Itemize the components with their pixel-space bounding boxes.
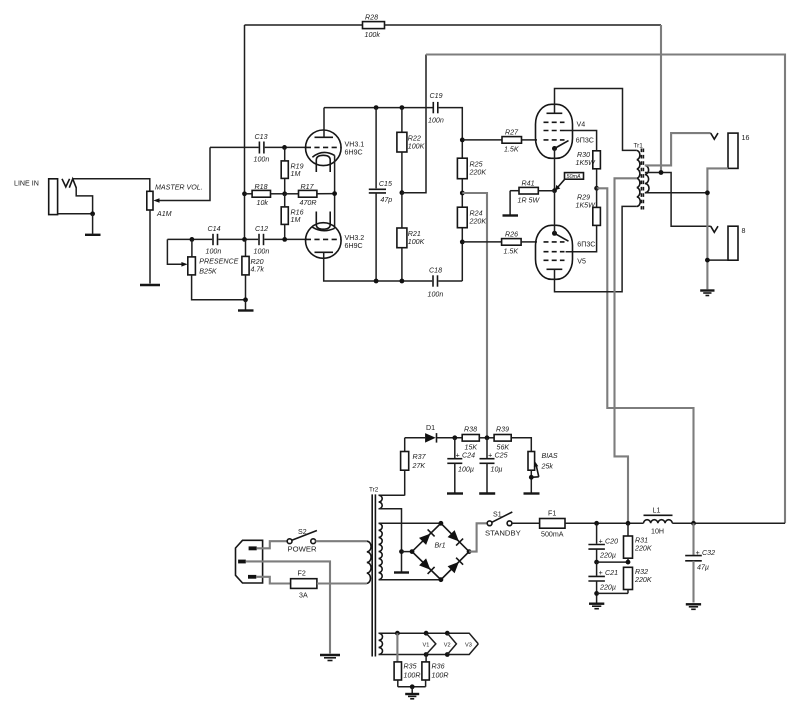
V4 cathode dot [552,146,557,151]
resistor R24 [457,207,486,228]
wire HT row with C19 [324,107,433,109]
node bridge right [467,549,472,554]
wire ground stub [92,214,94,234]
capacitor C21 [588,562,618,602]
svg-text:V5: V5 [577,258,586,266]
jack 16 tip contact [711,133,718,139]
capacitor C15 [369,108,392,281]
svg-text:6H9C: 6H9C [345,149,363,157]
ground HV winding [394,571,409,573]
heater arrow V1 [423,633,436,654]
svg-text:C25: C25 [495,452,508,460]
svg-text:15K: 15K [465,444,478,452]
wire jack 16 sleeve [707,168,728,289]
svg-text:220K: 220K [634,545,652,553]
resistor R21 [397,193,425,281]
wire secondary top lead to 16 ohm jack [645,133,711,165]
resistor R38 [462,426,479,452]
diode D1 [425,424,436,443]
Tr1 secondary winding [645,165,649,192]
PREAMP-SECTION [245,14,662,299]
resistor R25 [457,158,486,179]
capacitor C32 [685,523,715,602]
svg-text:R37: R37 [413,453,427,461]
capacitor C13 [254,133,270,164]
svg-text:6П3С: 6П3С [576,137,594,145]
svg-text:F2: F2 [298,570,306,578]
wire secondary bottom lead [645,192,708,194]
svg-text:1M: 1M [291,170,301,178]
svg-text:1M: 1M [291,216,301,224]
jack switch contact [69,179,76,188]
wire jack 8 sleeve [707,259,728,261]
ground C24 [447,492,463,494]
resistor R41 [510,180,554,205]
resistor R39 [494,426,511,452]
node C24 junction [452,435,457,440]
OUTPUT-SECTION [700,133,749,295]
svg-text:R18: R18 [255,183,268,191]
resistor R27 [462,129,537,154]
wire jack contact to ground node [76,187,92,214]
VH3.2 grid dashes [306,238,341,240]
svg-text:220K: 220K [469,169,487,177]
ground heater [405,694,419,699]
V5 grid3 dashes [544,259,565,261]
wire splitter mid to HT feed [402,55,426,193]
wire to ground [245,300,247,310]
bridge Br1 diamond [412,523,469,579]
wiper arrow of PRESENCE [181,262,187,267]
VH3.1 cathode arc [312,152,334,157]
Tr2 HV winding [379,523,383,579]
svg-text:PRESENCE: PRESENCE [199,258,238,266]
node bias wiper junction [529,475,534,480]
svg-text:MASTER VOL.: MASTER VOL. [155,184,203,192]
svg-text:3A: 3A [299,592,308,600]
svg-text:100n: 100n [428,117,444,125]
svg-text:C13: C13 [255,133,268,141]
svg-text:C20: C20 [605,538,618,546]
node R31 R32 junction [626,560,631,565]
svg-text:R27: R27 [505,129,519,137]
svg-text:R22: R22 [408,135,421,143]
svg-text:+: + [599,538,603,546]
svg-text:27K: 27K [412,462,426,470]
wire VH3.1 anode to HT row [323,108,325,138]
resistor R29 [576,188,601,225]
wire jack to volume pot [73,179,150,192]
Tr2 heater winding [379,633,383,654]
VH3.1 heater [316,155,330,172]
svg-text:50mA: 50mA [567,174,581,180]
wire S2 to Tr2 primary top [316,540,367,542]
resistor R16 [281,194,303,240]
node R16 bottom junction [282,237,287,242]
wire wiper to C13 row [156,147,210,200]
V5 anode plate [547,268,563,270]
node C15 bottom junction [374,279,379,284]
svg-text:C18: C18 [429,267,442,275]
wire presence pot top [191,239,193,257]
node R27 tap junction [460,138,465,143]
svg-text:100K: 100K [408,143,425,151]
switch S1 [485,510,521,537]
svg-text:V2: V2 [444,642,451,648]
node HV return junction [399,549,404,554]
wire VH3.2 anode down to C18 row [324,252,376,281]
wire jack sleeve to ground node [58,213,93,215]
wire screen supply to PSU [597,188,694,523]
wire HT rail 2 [426,55,785,524]
resistor R36 [422,655,449,687]
wire presence row left [167,238,212,240]
node feedback tap junction [659,170,664,175]
capacitor C20 [588,523,618,562]
svg-text:Tr1: Tr1 [634,143,644,150]
tube VH3.1 envelope [306,130,342,166]
PSU-SECTION [236,487,786,661]
svg-text:R24: R24 [470,210,483,218]
svg-text:6H9C: 6H9C [345,242,363,250]
svg-text:R32: R32 [635,568,648,576]
HEATER-SECTION [379,631,479,699]
resistor R20 [242,239,264,299]
callout 50mA box [555,173,583,191]
wire V4 screen to R30 [565,131,597,151]
svg-text:+: + [696,549,700,557]
VH3.2 cathode arc [312,227,334,231]
svg-text:220K: 220K [634,576,652,584]
node R18 feedback junction [242,191,247,196]
svg-text:V1: V1 [423,642,430,648]
wire bias feed [462,193,487,438]
node R18 R17 R19 R16 junction [282,191,287,196]
svg-text:S1: S1 [493,510,502,518]
svg-text:1K5W: 1K5W [576,159,597,167]
svg-text:R38: R38 [464,426,477,434]
wire B+ rail [565,522,644,524]
wire R37 to HV winding top [379,494,405,496]
svg-text:1.5K: 1.5K [504,146,519,154]
svg-text:10µ: 10µ [491,466,503,474]
svg-text:BIAS: BIAS [542,452,558,460]
svg-text:25k: 25k [541,463,554,471]
ground R41 [503,214,519,216]
node C13 R19 junction [282,145,287,150]
svg-text:500mA: 500mA [541,531,564,539]
node C15 top junction [374,105,379,110]
svg-text:100R: 100R [404,672,421,680]
wire live pin to S2 [257,541,287,548]
ground A1M [140,284,160,286]
V4 anode plate [547,112,563,114]
svg-text:VH3.2: VH3.2 [345,234,365,242]
bridge diode top-left [419,529,435,545]
node C20 junction [594,521,599,526]
ground C21 [589,604,604,609]
svg-text:C24: C24 [462,452,475,460]
svg-text:V4: V4 [577,121,586,129]
wire V4 cathode down [554,149,556,191]
resistor R32 [624,567,652,593]
wire bias pot bottom [530,470,532,492]
svg-text:4.7k: 4.7k [251,266,265,274]
svg-text:C12: C12 [255,225,268,233]
svg-text:V3: V3 [465,642,472,648]
switch S2 [287,528,317,554]
Tr2 bias winding [379,495,383,509]
V5 grid1 dashes [544,241,565,243]
svg-text:R26: R26 [505,231,518,239]
capacitor C25 [480,438,508,493]
wire L1 to B+ right [672,522,785,524]
svg-text:+: + [599,569,603,577]
jack 8 tip contact [711,226,718,232]
svg-text:R28: R28 [365,14,378,22]
wire C18 row [375,280,432,282]
resistor R37 [401,438,427,496]
resistor R17 [285,183,335,207]
wire C18 to splitter column [438,280,462,282]
VH3.1 grid dashes [306,146,341,148]
Tr1 primary winding [637,150,640,206]
ground C25 [479,492,495,494]
svg-text:R39: R39 [496,426,509,434]
wire S1 to F1 [512,522,540,524]
wire C14 to C12 [218,238,258,240]
svg-text:POWER: POWER [288,545,317,554]
wire R38 to R39 [479,437,494,439]
node R22 top junction [400,105,405,110]
node heater ground junction [410,684,415,689]
svg-text:100n: 100n [428,291,444,299]
node C32 junction [691,521,696,526]
wire heater rail bottom [379,644,479,655]
resistor R18 [245,183,285,207]
svg-text:1R 5W: 1R 5W [518,197,541,205]
Tr2 primary winding [367,541,371,583]
VH3.2 heater [316,212,330,230]
SPLITTER-SECTION [426,55,785,524]
connector jack 8 body [728,226,738,260]
capacitor C18 [428,267,444,299]
potentiometer BIAS 25k body [528,452,535,471]
VH3.1 anode plate [315,136,334,138]
wire R28 to output tap [385,24,662,26]
svg-text:220K: 220K [469,218,487,226]
node R26 tap junction [460,240,465,245]
wire R35 R36 to ground [398,686,426,688]
node R20 presence ground junction [243,297,248,302]
wire V5 cathode up [554,191,556,234]
Tr1 core [641,149,643,210]
svg-text:Tr2: Tr2 [369,487,379,494]
svg-text:100K: 100K [408,238,425,246]
wire R32 bottom to C21 [597,592,628,594]
svg-text:C21: C21 [605,569,618,577]
bridge diode bottom-right [448,558,464,574]
ground C32 [686,604,701,609]
jack tip contact V [62,179,70,187]
capacitor C24 [447,438,475,493]
svg-text:S2: S2 [298,528,307,536]
node R35 tap [395,631,400,636]
wire bias winding bottom to bridge left [379,509,402,572]
wire presence bottom [192,275,246,300]
svg-text:56K: 56K [497,444,510,452]
wire VH3.1 cathode to VH3.2 cathode [334,155,336,228]
svg-text:1.5K: 1.5K [504,248,519,256]
svg-text:100n: 100n [254,156,270,164]
wire V4 anode to Tr1 primary top [555,89,637,151]
wire HV top to bridge top [379,522,441,524]
capacitor C14 [206,225,222,256]
potentiometer PRESENCE B25K body [188,257,196,275]
resistor R28 [363,14,385,40]
ground jack [85,234,101,236]
svg-text:100µ: 100µ [458,466,474,474]
BIAS-SECTION [379,424,558,496]
wire D1 to R38 [437,437,463,439]
node bridge bottom [439,577,444,582]
Tr2 core [372,494,375,656]
svg-text:16: 16 [742,134,750,142]
resistor R22 [397,108,425,193]
resistor R31 [624,523,652,562]
V4 screen dashes [544,130,565,132]
svg-text:1K5W: 1K5W [576,202,597,210]
svg-text:100n: 100n [254,248,270,256]
wire R41 to ground [509,191,511,215]
node R30 R29 junction [594,186,599,191]
svg-text:100n: 100n [206,248,222,256]
fuse F1 [540,510,565,539]
svg-text:10k: 10k [257,199,269,207]
node jack 8 ground junction [705,258,710,263]
inductor L1 [644,507,673,536]
wire to bridge left corner [402,551,413,553]
wire bridge plus to S1 [469,523,487,551]
svg-text:470R: 470R [300,199,317,207]
ground BIAS [524,492,540,494]
heater arrow V2 [444,633,457,654]
wire HV bottom to bridge bottom [379,579,441,581]
capacitor C19 [428,92,444,125]
svg-text:R29: R29 [577,194,590,202]
V5 beam plate tie [555,233,569,241]
svg-text:Br1: Br1 [435,542,446,550]
svg-text:8: 8 [742,227,746,235]
node C21 ground junction [594,591,599,596]
svg-text:VH3.1: VH3.1 [345,141,365,149]
wire R28 feedback rail top [245,24,363,26]
svg-text:100R: 100R [432,672,449,680]
wire C13 row [210,146,259,148]
node V2 bottom tap [445,652,450,657]
POWER-TUBES-SECTION [503,89,711,524]
V4 grid1 dashes [544,139,565,141]
wire C13 to VH3.1 grid [265,146,307,148]
bridge diode bottom-left [419,558,435,574]
wire V5 anode to Tr1 primary bottom [555,206,637,291]
wire neutral pin to F2 [256,577,290,584]
bridge diode top-right [448,530,464,546]
svg-text:LINE IN: LINE IN [14,180,39,188]
node presence top junction [190,237,195,242]
wire heater rail top [379,633,479,644]
resistor R19 [281,147,303,193]
capacitor C12 [254,225,270,256]
node bias filter junction [485,435,490,440]
svg-text:R25: R25 [470,161,483,169]
resistor R30 [576,151,601,189]
svg-text:F1: F1 [548,510,556,518]
svg-text:10H: 10H [651,528,664,536]
node R21 bottom junction [400,279,405,284]
svg-text:L1: L1 [653,507,661,515]
tube V4 envelope [536,104,573,158]
node cathode R17 junction [332,191,337,196]
svg-text:A1M: A1M [156,210,172,218]
node R36 tap [424,652,429,657]
node bias mid junction [460,191,465,196]
node R20 top junction [242,237,247,242]
svg-text:R31: R31 [635,537,648,545]
V4 grid3 dashes [544,121,565,123]
svg-text:220µ: 220µ [599,584,616,592]
svg-text:+: + [456,452,460,460]
resistor R26 [462,231,537,256]
svg-text:C19: C19 [430,92,443,100]
wire presence wiper loop [167,239,184,264]
wiper arrow of A1M [153,198,159,203]
svg-text:D1: D1 [426,424,435,432]
node V1 top tap [424,631,429,636]
tube V5 envelope [536,225,573,279]
VH3.2 anode plate [315,251,334,253]
svg-text:STANDBY: STANDBY [485,529,521,538]
wire secondary tap lead [645,173,711,227]
potentiometer A1M body [147,191,153,210]
connector jack 16 body [728,133,738,168]
svg-text:R17: R17 [301,183,315,191]
resistor R35 [394,633,420,687]
svg-text:R21: R21 [408,230,421,238]
mains pin neutral [248,575,256,579]
ground R20 [238,309,254,311]
V5 cathode dot [552,231,557,236]
node jack ground junction [90,211,95,216]
node R31 junction [626,521,631,526]
svg-text:R35: R35 [404,663,417,671]
wire C19 to splitter column [439,108,463,281]
node V4 V5 cathode junction [552,188,557,193]
svg-text:+: + [488,452,492,460]
svg-text:C15: C15 [379,180,392,188]
mains pin live [249,546,257,550]
svg-text:R41: R41 [522,180,535,188]
wire feedback drop to Tr1 tap [660,25,662,172]
wire earth pin to ground [246,561,330,653]
svg-text:C32: C32 [702,549,715,557]
connector J1 jack body [49,179,58,215]
wire R31 bottom to C20 [597,561,628,563]
V4 beam plate tie [555,141,569,149]
V5 screen dashes [544,251,565,253]
svg-text:C14: C14 [208,225,221,233]
wire feedback vertical from R28 rail [244,25,246,239]
